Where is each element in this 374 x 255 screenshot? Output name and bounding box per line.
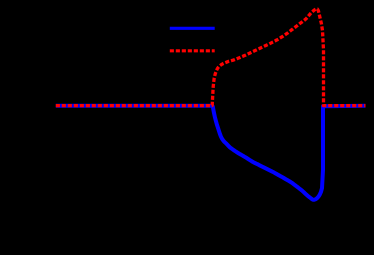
red dashed curve (with zero-baseline segments) [56, 9, 366, 106]
blue solid curve (with zero-baseline segments) [56, 106, 366, 200]
legend red dashed line sample [170, 49, 215, 52]
legend blue solid line sample [170, 27, 215, 30]
